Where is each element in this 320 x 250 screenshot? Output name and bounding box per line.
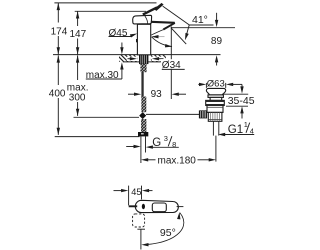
label D34 <box>161 59 186 71</box>
41 deg leader from lever tip <box>163 6 190 25</box>
svg-text:35-45: 35-45 <box>228 95 255 107</box>
spout swivel arc <box>152 37 173 47</box>
dim D63 <box>205 83 207 88</box>
dim 174 vertical line <box>57 3 60 55</box>
spout underside <box>151 30 164 36</box>
basin surface line <box>222 93 248 95</box>
400 reference line bottom <box>55 136 140 138</box>
drain lower body <box>208 112 222 121</box>
95 deg arc <box>145 213 184 245</box>
drain tail pipe <box>212 121 214 135</box>
body side tab <box>136 39 138 42</box>
spout swivel gray tail <box>153 36 165 38</box>
plan centerline down <box>140 229 142 249</box>
dim 89 <box>216 13 218 24</box>
dim 147 vertical line <box>76 11 79 54</box>
drain neck <box>210 97 222 100</box>
svg-text:147: 147 <box>70 29 87 40</box>
spout dark top edge <box>151 21 175 24</box>
clamp line <box>226 105 248 107</box>
supply hose braided <box>140 64 146 72</box>
svg-text:95°: 95° <box>160 227 176 239</box>
dim max300 vertical line <box>76 55 79 116</box>
extension line top (174 ref) <box>54 2 156 4</box>
max30 down arrow above counter <box>121 43 123 51</box>
drain actuating rod <box>146 113 199 115</box>
countertop bottom line <box>123 61 166 63</box>
41 deg wedge line <box>171 28 186 44</box>
hose braided lower <box>141 119 146 132</box>
plan spout stub <box>129 205 138 207</box>
dim 35-45 top arrow <box>241 84 243 89</box>
lever grip <box>133 15 152 24</box>
D34 hole arrows <box>127 57 137 61</box>
svg-text:174: 174 <box>51 26 68 37</box>
svg-text:3: 3 <box>164 134 168 143</box>
41 leader arrow <box>186 25 189 37</box>
svg-text:max.180: max.180 <box>158 156 197 167</box>
plan lever axis stub <box>177 206 184 208</box>
drain seal stack <box>206 100 225 105</box>
grip front contour <box>145 16 148 24</box>
svg-text:Ø45: Ø45 <box>109 28 128 39</box>
svg-text:G: G <box>152 137 161 149</box>
faucet shank through counter <box>139 55 148 64</box>
drain pipe centerline <box>215 136 217 162</box>
svg-text:400: 400 <box>49 88 66 99</box>
plan lever body <box>135 200 178 212</box>
dim G38 arrows <box>126 146 137 148</box>
dim 45 <box>114 190 126 192</box>
faucet body <box>137 24 150 55</box>
dim max180 <box>141 158 148 161</box>
svg-text:41°: 41° <box>192 14 208 26</box>
drain flange <box>206 88 225 95</box>
hose ball joint <box>139 112 146 119</box>
countertop surface line <box>53 54 221 56</box>
plan hidden body dashed <box>133 214 145 227</box>
lever tip <box>154 3 164 11</box>
svg-text:45: 45 <box>131 187 141 197</box>
max300 reference line <box>74 116 140 118</box>
plan center tick <box>137 228 145 230</box>
svg-text:Ø63: Ø63 <box>207 78 225 89</box>
extension line (147 ref) <box>75 10 146 12</box>
hose extension lines <box>140 136 142 163</box>
spout outlet horizontal line <box>171 27 235 29</box>
drain clamp nut <box>207 105 223 112</box>
drain lip ring <box>208 95 223 98</box>
lever arm <box>143 7 157 14</box>
plan aerator slot <box>142 204 145 209</box>
svg-text:8: 8 <box>172 140 176 149</box>
spout outlet vertical extension line <box>170 27 172 100</box>
max30 up arrow <box>121 66 123 79</box>
G38 connector nut <box>138 132 148 136</box>
spout end face <box>163 23 175 30</box>
svg-text:89: 89 <box>211 36 223 47</box>
plan view dim 45 ext lines <box>128 186 130 206</box>
35-45 bottom arrow <box>240 106 243 113</box>
plan lever top face <box>152 203 166 212</box>
svg-text:300: 300 <box>69 92 86 103</box>
dim 400 vertical line <box>57 55 60 134</box>
svg-text:93: 93 <box>151 89 163 100</box>
drain side knob <box>199 110 207 118</box>
